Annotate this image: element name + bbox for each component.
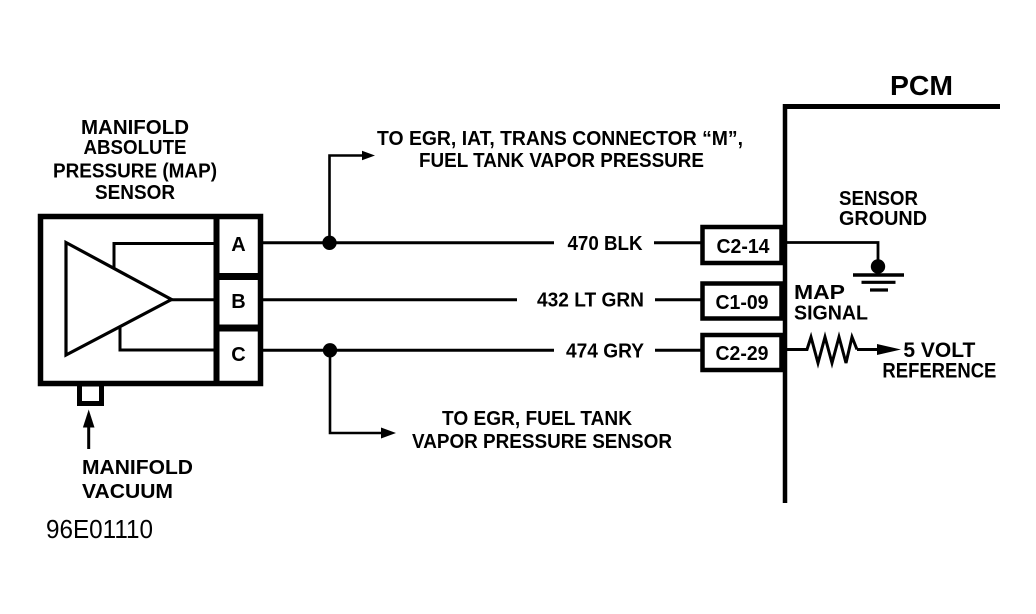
label: TO EGR, IAT, TRANS CONNECTOR "M", FUEL TANK VAPOR PRESSURE [377, 128, 743, 172]
svg-text:SENSOR: SENSOR [839, 188, 919, 210]
svg-text:TO EGR, FUEL TANK: TO EGR, FUEL TANK [442, 408, 633, 430]
label: TO EGR, FUEL TANK VAPOR PRESSURE SENSOR [412, 408, 673, 453]
svg-text:C2-29: C2-29 [716, 343, 769, 365]
svg-text:474 GRY: 474 GRY [566, 341, 645, 363]
connector bar between pin A and pin B [214, 273, 263, 280]
wire 474 GRY: label to terminal C2-29 (right segment) [655, 349, 702, 352]
connector terminal C1-09 [703, 284, 782, 319]
junction dot on wire 474 GRY [323, 343, 337, 357]
wire 474 GRY: pin C to label (left segment) [259, 349, 554, 352]
svg-text:VACUUM: VACUUM [82, 481, 173, 503]
svg-text:PCM: PCM [890, 70, 953, 101]
wire: C2-14 inside PCM to ground [787, 243, 878, 263]
svg-text:MANIFOLD: MANIFOLD [82, 457, 193, 479]
arrow: manifold vacuum input [87, 424, 90, 449]
label: 5 VOLT REFERENCE [882, 339, 996, 383]
MAP sensor outline box [41, 217, 261, 384]
sensor transducer triangle [66, 243, 172, 356]
svg-text:SENSOR: SENSOR [95, 182, 176, 204]
connector terminal C2-29 [703, 335, 782, 370]
connector bar between pin B and pin C [214, 325, 263, 332]
svg-text:PRESSURE (MAP): PRESSURE (MAP) [53, 161, 217, 183]
connector divider line [214, 214, 220, 386]
label: MANIFOLD ABSOLUTE PRESSURE (MAP) SENSOR title [53, 117, 217, 204]
resistor R (5 volt reference pull-up) [787, 337, 857, 363]
svg-text:C2-14: C2-14 [717, 236, 771, 258]
svg-text:B: B [231, 291, 245, 313]
connector terminal C2-14 [703, 227, 782, 263]
PCM boundary (top edge) [783, 104, 1000, 109]
svg-text:TO EGR, IAT, TRANS CONNECTOR “: TO EGR, IAT, TRANS CONNECTOR “M”, [377, 128, 743, 150]
svg-text:ABSOLUTE: ABSOLUTE [84, 137, 187, 159]
wire: triangle bottom edge to pin C [120, 327, 216, 351]
svg-text:MANIFOLD: MANIFOLD [81, 117, 189, 139]
ground symbol [853, 273, 904, 277]
wire: triangle apex to pin B [171, 298, 216, 301]
label: MAP SIGNAL [794, 282, 868, 325]
wire 432 LT GRN: pin B to label (left segment) [259, 298, 517, 301]
svg-text:96E01110: 96E01110 [46, 514, 153, 544]
junction dot on wire 470 BLK [322, 236, 336, 250]
svg-text:C: C [231, 344, 245, 366]
wire 432 LT GRN: label to terminal C1-09 (right segment) [655, 298, 702, 301]
svg-text:MAP: MAP [794, 282, 845, 304]
ground node dot [871, 259, 885, 273]
PCM boundary (left edge) [783, 104, 788, 503]
wire: triangle top edge to pin A [114, 244, 216, 269]
wire: branch down from junction to EGR/fuel-tank arrow [330, 350, 382, 433]
svg-text:432 LT GRN: 432 LT GRN [537, 290, 644, 312]
svg-text:FUEL TANK VAPOR PRESSURE: FUEL TANK VAPOR PRESSURE [419, 150, 704, 172]
svg-text:470 BLK: 470 BLK [568, 233, 644, 255]
label: SENSOR GROUND [839, 188, 927, 230]
svg-text:A: A [231, 234, 245, 256]
svg-text:C1-09: C1-09 [716, 292, 769, 314]
svg-text:GROUND: GROUND [839, 208, 927, 230]
svg-text:SIGNAL: SIGNAL [794, 303, 868, 325]
svg-text:REFERENCE: REFERENCE [882, 360, 996, 383]
label: MANIFOLD VACUUM [82, 457, 193, 503]
wire 470 BLK: pin A to label (left segment) [259, 241, 554, 244]
arrow: to 5 volt reference [857, 348, 880, 351]
wire 470 BLK: label to terminal C2-14 (right segment) [654, 241, 702, 244]
vacuum port stub box [80, 384, 102, 404]
svg-text:VAPOR PRESSURE SENSOR: VAPOR PRESSURE SENSOR [412, 431, 673, 453]
wire: branch up from junction to EGR/IAT arrow [330, 156, 364, 243]
